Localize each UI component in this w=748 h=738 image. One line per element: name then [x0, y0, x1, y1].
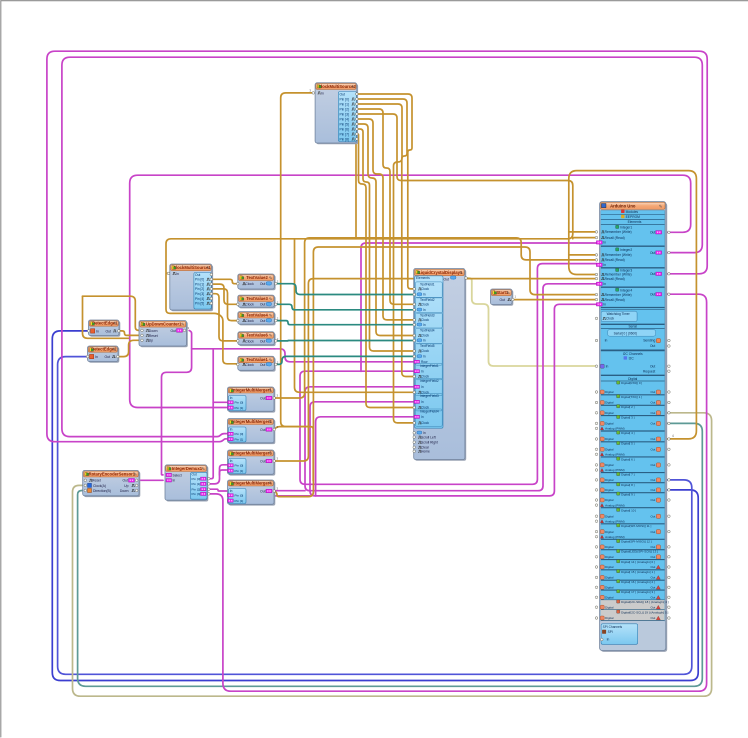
svg-text:Clock: Clock	[421, 375, 429, 379]
svg-text:✎: ✎	[206, 266, 210, 271]
svg-text:Digital[ 3 ]: Digital[ 3 ]	[621, 416, 635, 420]
svg-text:Clock: Clock	[421, 287, 429, 291]
svg-text:Digital: Digital	[605, 555, 614, 559]
svg-text:Clock: Clock	[421, 318, 429, 322]
svg-text:Recall (Read): Recall (Read)	[605, 277, 625, 281]
wire magenta IF1net riser->Integer1.In	[361, 243, 597, 371]
wire gold Start1.Out->Recall4	[513, 299, 597, 301]
svg-text:Analog (PWM): Analog (PWM)	[605, 468, 625, 472]
svg-text:Pin [3]: Pin [3]	[340, 112, 349, 116]
svg-text:Out: Out	[650, 488, 655, 492]
arduino channel Digital(TX0)[ 1 ]	[617, 395, 620, 398]
svg-text:Out: Out	[260, 319, 266, 323]
svg-text:Integer2: Integer2	[620, 248, 632, 252]
svg-text:In: In	[421, 400, 424, 404]
svg-text:Out: Out	[650, 478, 655, 482]
svg-text:In: In	[603, 263, 606, 267]
svg-text:4: 4	[672, 434, 674, 438]
svg-text:Reset: Reset	[92, 479, 101, 483]
svg-text:Pin [8]: Pin [8]	[340, 137, 349, 141]
svg-text:In: In	[230, 459, 233, 463]
svg-text:Out: Out	[650, 292, 655, 296]
svg-text:Out: Out	[650, 463, 655, 467]
arduino channel Digital[ 8 ]	[617, 483, 620, 486]
svg-text:Pin [5]: Pin [5]	[340, 122, 349, 126]
svg-text:✎: ✎	[113, 347, 117, 352]
svg-text:Out: Out	[650, 555, 655, 559]
svg-text:Analog (PWM): Analog (PWM)	[605, 453, 625, 457]
arduino channel Digital[ 6 ]	[617, 457, 620, 460]
svg-text:Pin [4]: Pin [4]	[340, 117, 349, 121]
arduino channel Digital(RX0)[ 0 ]	[617, 381, 620, 384]
svg-text:Digital[ 14 ] (AnalogIn[ 0 ]: Digital[ 14 ] (AnalogIn[ 0 ]	[621, 560, 655, 564]
svg-text:IntegerDemux1: IntegerDemux1	[172, 466, 203, 471]
svg-text:Scroll Left: Scroll Left	[421, 435, 436, 439]
svg-text:Remember (Write): Remember (Write)	[605, 293, 632, 297]
svg-text:Digital: Digital	[605, 586, 614, 590]
block DetectEdge1	[90, 321, 121, 337]
svg-text:Out: Out	[650, 565, 655, 569]
svg-text:✎: ✎	[269, 275, 273, 280]
svg-text:Digital: Digital	[605, 401, 614, 405]
svg-text:Out: Out	[500, 298, 506, 302]
wire magenta Integer3.Out->IMM2.Pin1	[47, 51, 707, 442]
svg-text:Out: Out	[650, 605, 655, 609]
svg-text:In: In	[606, 364, 609, 368]
svg-text:Digital[ 4 ]: Digital[ 4 ]	[621, 431, 635, 435]
svg-text:Recall (Read): Recall (Read)	[605, 258, 625, 262]
wire khaki D2->ClockA	[73, 413, 712, 696]
svg-text:Recall (Read): Recall (Read)	[605, 236, 625, 240]
svg-text:✎: ✎	[269, 333, 273, 338]
svg-text:In: In	[321, 91, 324, 95]
svg-text:In: In	[423, 339, 426, 343]
svg-text:Out: Out	[260, 363, 266, 367]
svg-text:Digital[ 17 ] (AnalogIn[ 3 ]: Digital[ 17 ] (AnalogIn[ 3 ]	[621, 590, 655, 594]
svg-text:Remember (Write): Remember (Write)	[605, 253, 632, 257]
svg-text:Out: Out	[340, 93, 346, 97]
svg-text:Digital(TX0)[ 1 ]: Digital(TX0)[ 1 ]	[621, 395, 642, 399]
block IntegerMultiMerger4	[229, 481, 275, 505]
wire gold CMS2 pin3	[357, 109, 414, 304]
svg-text:Out: Out	[650, 596, 655, 600]
wire gold CMS2.In column joins IMM2.Out	[281, 93, 314, 427]
svg-text:Out: Out	[650, 390, 655, 394]
svg-text:Scroll Right: Scroll Right	[421, 440, 438, 444]
wire magenta U3 IF3.In<->Integer4.In	[310, 304, 597, 496]
svg-text:Digital(SPI-MISO)[ 12 ]: Digital(SPI-MISO)[ 12 ]	[621, 540, 652, 544]
svg-text:✎: ✎	[269, 481, 273, 486]
wire magenta U2 ext->IMM4.Pin0	[228, 491, 305, 496]
block UpDownCounter1	[140, 322, 188, 348]
svg-text:TextValue4: TextValue4	[246, 312, 268, 317]
wire magenta UDC.Out branch->LCD.Row	[192, 349, 414, 362]
svg-text:Out: Out	[444, 278, 450, 282]
svg-text:Out: Out	[192, 473, 197, 477]
block TextValue6	[239, 333, 276, 346]
svg-text:Digital(LED)(SPI-SCK)[ 13 ]: Digital(LED)(SPI-SCK)[ 13 ]	[621, 550, 658, 554]
wire gold IMM2.Out->join riser	[274, 427, 313, 481]
arduino channel Digital[ 2 ]	[617, 405, 620, 408]
svg-text:Out: Out	[260, 489, 265, 493]
wire gold CMS2 pin2	[357, 104, 414, 423]
svg-text:Out: Out	[650, 530, 655, 534]
svg-text:Out: Out	[106, 329, 112, 333]
svg-text:Digital: Digital	[605, 545, 614, 549]
wire gold Recall1 jog from trunk	[573, 238, 597, 239]
svg-text:Modules: Modules	[626, 210, 639, 214]
svg-text:LiquidCrystalDisplay1: LiquidCrystalDisplay1	[418, 270, 463, 275]
arduino channel Digital[ 16 ] (AnalogIn[ 2 ]	[617, 580, 620, 583]
svg-text:Out: Out	[650, 401, 655, 405]
svg-text:Out: Out	[650, 272, 655, 276]
arduino element Integer3	[616, 268, 619, 271]
svg-text:SPI: SPI	[608, 630, 613, 634]
wire gold CMS2 pin1	[357, 99, 414, 377]
wire gold DetectEdge2.Out->UDC.Up	[117, 340, 142, 356]
svg-text:Digital: Digital	[605, 576, 614, 580]
svg-text:TextField1: TextField1	[420, 283, 435, 287]
svg-text:UpDownCounter1: UpDownCounter1	[146, 322, 182, 327]
wire gold left loop->UDC.Down	[83, 296, 143, 330]
wire magenta x213 stub->IMM1.Pin0	[213, 401, 226, 403]
svg-text:In: In	[423, 323, 426, 327]
svg-text:Watchdog Timer: Watchdog Timer	[607, 312, 631, 316]
svg-text:Pin [0]: Pin [0]	[235, 432, 244, 436]
wire magenta Integer1.Out->IMM1.Pin1	[130, 175, 691, 407]
svg-text:IntegerField4: IntegerField4	[420, 410, 439, 414]
arduino channel Digital[ 10 ]	[617, 508, 620, 511]
svg-text:Digital: Digital	[605, 498, 614, 502]
svg-text:Digital: Digital	[605, 605, 614, 609]
block TextValue2	[239, 275, 276, 290]
wire gold CMS2 pin8	[357, 134, 414, 408]
wire gold CMS1 pin1	[211, 284, 239, 304]
svg-text:Integer4: Integer4	[620, 288, 632, 292]
wire magenta IF4.In riser	[316, 417, 414, 496]
wire gold CMS2 pin0	[357, 94, 414, 289]
svg-text:Out: Out	[105, 355, 111, 359]
arduino channel Digital[ 3 ]	[617, 415, 620, 418]
arduino channel Digital[ 9 ]	[617, 492, 620, 495]
svg-text:TextValue6: TextValue6	[246, 333, 268, 338]
wire teal TV1.Out->TF5.In	[276, 356, 414, 364]
arduino element Integer2	[616, 248, 619, 251]
svg-text:Out: Out	[260, 428, 265, 432]
svg-text:✎: ✎	[351, 84, 355, 89]
svg-text:Pin [1]: Pin [1]	[235, 469, 244, 473]
svg-text:Out: Out	[650, 364, 655, 368]
svg-text:Elements: Elements	[416, 276, 430, 280]
svg-text:I2C: I2C	[629, 356, 635, 360]
svg-text:Analog (PWM): Analog (PWM)	[605, 427, 625, 431]
svg-text:Pin [5]: Pin [5]	[195, 302, 204, 306]
svg-text:In: In	[423, 293, 426, 297]
wire magenta Demux.Pin1->IMM3.Pin1	[220, 470, 227, 475]
svg-text:Clock: Clock	[245, 363, 254, 367]
wire magenta Demux.Pin1->IMM3.Pin0	[209, 465, 227, 484]
wire gold CMS1 pin2	[211, 289, 239, 321]
svg-text:Pin [3]: Pin [3]	[195, 292, 204, 296]
svg-text:Out: Out	[195, 273, 200, 277]
wire gold IMM3.Out->Recall3	[274, 279, 596, 461]
svg-text:Direction(B): Direction(B)	[93, 489, 111, 493]
wire gold DetectEdge1.Out->UDC.Reset	[117, 331, 142, 336]
block IntegerDemux1	[166, 466, 208, 501]
svg-text:Out: Out	[260, 459, 265, 463]
svg-text:In: In	[423, 308, 426, 312]
svg-text:Digital: Digital	[605, 514, 614, 518]
svg-text:In: In	[421, 415, 424, 419]
arduino element Integer4	[616, 288, 619, 291]
wire magenta U1 IF1.In<->Integer2.In	[300, 264, 597, 485]
wire gold CMS2 pin5	[357, 119, 414, 320]
svg-text:Select: Select	[173, 473, 182, 477]
wire magenta Integer4.Out->Demux.Pin3	[209, 294, 707, 691]
svg-text:Digital: Digital	[605, 411, 614, 415]
svg-text:RotaryEncoderSensor1: RotaryEncoderSensor1	[89, 471, 136, 476]
svg-text:Request: Request	[643, 369, 655, 373]
svg-text:Out: Out	[260, 396, 265, 400]
svg-text:Pin [2]: Pin [2]	[195, 287, 204, 291]
svg-text:In: In	[230, 489, 233, 493]
svg-text:Digital[ 7 ]: Digital[ 7 ]	[621, 473, 635, 477]
svg-text:Analog (PWM): Analog (PWM)	[605, 503, 625, 507]
svg-text:Pin [1]: Pin [1]	[235, 499, 244, 503]
arduino channel Digital(SPI-MOSI)[ 11 ]	[617, 524, 620, 527]
svg-text:Digital(I2C-SCL)[ 19 ] (Analog: Digital(I2C-SCL)[ 19 ] (AnalogIn[ 5 ]	[621, 610, 668, 614]
svg-text:Integer1: Integer1	[620, 226, 632, 230]
svg-text:Out: Out	[650, 616, 655, 620]
svg-text:Digital[ 2 ]: Digital[ 2 ]	[621, 405, 635, 409]
arduino channel Digital[ 4 ]	[617, 431, 620, 434]
svg-text:Reset: Reset	[149, 334, 158, 338]
svg-text:Clock: Clock	[606, 317, 614, 321]
svg-text:Remember (Write): Remember (Write)	[605, 230, 632, 234]
svg-text:Serial: Serial	[628, 325, 637, 329]
wire gold CMS2 pin9	[355, 139, 358, 239]
svg-text:Digital[ 6 ]: Digital[ 6 ]	[621, 457, 635, 461]
svg-text:Out: Out	[123, 479, 129, 483]
svg-text:Digital: Digital	[605, 478, 614, 482]
svg-text:Arduino Uno: Arduino Uno	[610, 204, 636, 209]
wire teal TV3.Out->TF2.In	[276, 304, 414, 310]
svg-text:✎: ✎	[507, 291, 511, 296]
svg-text:In: In	[95, 355, 98, 359]
svg-text:Sending: Sending	[643, 339, 655, 343]
wire teal D3->Direction	[78, 423, 703, 686]
svg-text:In: In	[96, 329, 99, 333]
svg-text:✎: ✎	[134, 472, 138, 477]
svg-text:Pin [7]: Pin [7]	[340, 132, 349, 136]
svg-text:Clock: Clock	[421, 349, 429, 353]
svg-text:Pin [1]: Pin [1]	[192, 482, 201, 486]
svg-text:Pin [0]: Pin [0]	[235, 401, 244, 405]
svg-text:Out: Out	[650, 545, 655, 549]
wire teal TV4.Out->TF3.In	[276, 321, 414, 325]
svg-text:Out: Out	[650, 251, 655, 255]
svg-text:TextValue3: TextValue3	[246, 296, 268, 301]
svg-text:Digital: Digital	[605, 463, 614, 467]
svg-text:In: In	[603, 303, 606, 307]
svg-text:Digital: Digital	[605, 390, 614, 394]
svg-text:Digital[ 15 ] (AnalogIn[ 1 ]: Digital[ 15 ] (AnalogIn[ 1 ]	[621, 570, 655, 574]
wire blue D8->DetectEdge1.In	[52, 331, 698, 681]
svg-text:Out: Out	[260, 303, 266, 307]
svg-text:Out: Out	[650, 411, 655, 415]
svg-text:Out: Out	[650, 498, 655, 502]
block IntegerMultiMerger1	[229, 388, 275, 412]
svg-text:Out: Out	[650, 422, 655, 426]
wire gold CMS2 pin4	[357, 114, 405, 181]
svg-text:Out: Out	[171, 329, 177, 333]
svg-text:In: In	[605, 339, 608, 343]
svg-text:IntegerMultiMerger2: IntegerMultiMerger2	[232, 419, 273, 424]
svg-text:Down: Down	[120, 489, 129, 493]
block Start1	[492, 290, 514, 306]
svg-text:Clock: Clock	[245, 282, 254, 286]
svg-text:✎: ✎	[114, 321, 118, 326]
wire gold CMS1 pin3	[211, 294, 239, 341]
svg-text:Clock: Clock	[421, 334, 429, 338]
wire pale LCD.Out->I2C.In	[466, 278, 597, 366]
svg-text:Pin [2]: Pin [2]	[192, 487, 201, 491]
wire magenta U3 ext->IMM4.Pin1	[228, 496, 310, 501]
svg-text:Up: Up	[149, 339, 153, 343]
wire gold CMS2 pin7	[357, 129, 414, 351]
svg-text:Digital[ 8 ]: Digital[ 8 ]	[621, 483, 635, 487]
svg-text:Down: Down	[149, 329, 158, 333]
svg-text:IntegerMultiMerger3: IntegerMultiMerger3	[232, 450, 273, 455]
svg-text:SPI Channels: SPI Channels	[603, 625, 623, 629]
wire teal TV6.Out->TF4.In	[276, 340, 414, 342]
arduino channel Digital[ 5 ]	[617, 441, 620, 444]
svg-text:Analog (PWM): Analog (PWM)	[605, 535, 625, 539]
svg-text:Pin [2]: Pin [2]	[340, 107, 349, 111]
wire gold IMM4.Out->Remember4	[274, 247, 596, 497]
arduino channel Digital[ 15 ] (AnalogIn[ 1 ]	[617, 570, 620, 573]
arduino channel Digital(I2C-SDA)[ 18 ] (AnalogIn[ 4 ]	[601, 600, 665, 610]
svg-text:TextField5: TextField5	[420, 344, 435, 348]
svg-text:IntegerField1: IntegerField1	[420, 364, 439, 368]
svg-text:Digital: Digital	[605, 530, 614, 534]
svg-text:Clock: Clock	[245, 303, 254, 307]
svg-text:Digital: Digital	[605, 448, 614, 452]
svg-text:Pin [0]: Pin [0]	[340, 97, 349, 101]
svg-text:In: In	[607, 638, 610, 642]
svg-text:✎: ✎	[659, 204, 663, 209]
svg-text:Digital: Digital	[605, 488, 614, 492]
svg-text:Digital[ 16 ] (AnalogIn[ 2 ]: Digital[ 16 ] (AnalogIn[ 2 ]	[621, 580, 655, 584]
arduino element Integer1	[616, 225, 619, 228]
block ClockMultiSource1	[171, 265, 213, 311]
svg-text:Pin [0]: Pin [0]	[192, 477, 201, 481]
svg-text:Clock: Clock	[421, 421, 429, 425]
svg-text:Digital(I2C-SDA)[ 18 ] (Analog: Digital(I2C-SDA)[ 18 ] (AnalogIn[ 4 ]	[621, 600, 669, 604]
svg-text:✎: ✎	[202, 467, 206, 472]
svg-text:Digital: Digital	[605, 565, 614, 569]
svg-text:Out: Out	[650, 437, 655, 441]
svg-text:Clock: Clock	[421, 303, 429, 307]
svg-text:TextValue1: TextValue1	[246, 357, 268, 362]
svg-text:Pin [6]: Pin [6]	[340, 127, 349, 131]
wire gold CMS1 pin0	[211, 279, 239, 283]
svg-text:Out: Out	[650, 231, 655, 235]
svg-text:Pin [0]: Pin [0]	[195, 278, 204, 282]
svg-text:✎: ✎	[269, 358, 273, 363]
svg-text:Clock: Clock	[245, 339, 254, 343]
svg-text:Digital(SPI-MOSI)[ 11 ]: Digital(SPI-MOSI)[ 11 ]	[621, 524, 651, 528]
svg-text:IntegerMultiMerger4: IntegerMultiMerger4	[232, 480, 273, 485]
svg-text:Home: Home	[421, 450, 430, 454]
svg-text:TextField2: TextField2	[420, 298, 435, 302]
svg-text:In: In	[421, 369, 424, 373]
svg-text:In: In	[176, 272, 179, 276]
svg-text:Recall (Read): Recall (Read)	[605, 298, 625, 302]
svg-text:Clock: Clock	[245, 319, 254, 323]
arduino channel Digital(SPI-MISO)[ 12 ]	[617, 539, 620, 542]
svg-text:I2C Channels: I2C Channels	[623, 352, 643, 356]
block TextValue3	[239, 296, 276, 308]
svg-text:Up: Up	[124, 484, 128, 488]
arduino channel Digital[ 7 ]	[617, 472, 620, 475]
svg-text:✎: ✎	[269, 297, 273, 302]
block DetectEdge2	[89, 347, 120, 363]
wire magenta UDC.Out->Demux.Select	[162, 331, 192, 475]
wire magenta Integer2.Out->IMM2.Pin0	[62, 57, 702, 436]
svg-text:In: In	[230, 428, 233, 432]
svg-text:Digital[ 5 ]: Digital[ 5 ]	[621, 442, 635, 446]
svg-text:Digital: Digital	[605, 616, 614, 620]
svg-text:✎: ✎	[459, 271, 463, 276]
wire gold left loop vert	[83, 296, 129, 338]
svg-text:Pin [1]: Pin [1]	[195, 282, 204, 286]
wire gold IMM1.Out->Recalls column	[274, 238, 596, 398]
svg-text:✎: ✎	[269, 451, 273, 456]
svg-text:EEPROM: EEPROM	[626, 215, 641, 219]
svg-text:✎: ✎	[269, 313, 273, 318]
svg-text:Elements: Elements	[628, 220, 642, 224]
svg-text:Out: Out	[650, 514, 655, 518]
svg-text:Out: Out	[260, 339, 266, 343]
arduino SPI section	[601, 621, 665, 649]
wire magenta Rotary.Out->Demux.In	[137, 479, 164, 481]
wire gold Remember1 stub	[569, 231, 597, 233]
svg-text:Pin [1]: Pin [1]	[235, 406, 244, 410]
svg-text:In: In	[603, 282, 606, 286]
block Arduino Uno	[601, 203, 667, 652]
block IntegerMultiMerger2	[229, 420, 275, 444]
arduino channel Digital(LED)(SPI-SCK)[ 13 ]	[617, 549, 620, 552]
svg-text:IntegerField3: IntegerField3	[420, 394, 439, 398]
arduino channel Digital(I2C-SCL)[ 19 ] (AnalogIn[ 5 ]	[601, 610, 665, 621]
svg-text:Digital[ 9 ]: Digital[ 9 ]	[621, 492, 635, 496]
wire gold Remember2 stub	[569, 254, 597, 256]
wire gold trunk ext->TV1.Clock	[166, 273, 239, 364]
svg-text:✎: ✎	[181, 322, 185, 327]
svg-text:Serial[ 0 ] (9600): Serial[ 0 ] (9600)	[614, 331, 638, 335]
svg-text:Clock(A): Clock(A)	[93, 484, 106, 488]
svg-text:Pin [0]: Pin [0]	[235, 494, 244, 498]
svg-text:Digital: Digital	[605, 596, 614, 600]
wire magenta U2 IF2.In<->Integer3.In	[305, 284, 597, 491]
svg-text:In: In	[423, 355, 426, 359]
block IntegerMultiMerger3	[229, 451, 275, 475]
svg-text:✎: ✎	[269, 388, 273, 393]
wire teal TV2.Out->TF1.In	[276, 284, 414, 295]
svg-text:Out: Out	[650, 586, 655, 590]
svg-text:Pin [1]: Pin [1]	[235, 437, 244, 441]
